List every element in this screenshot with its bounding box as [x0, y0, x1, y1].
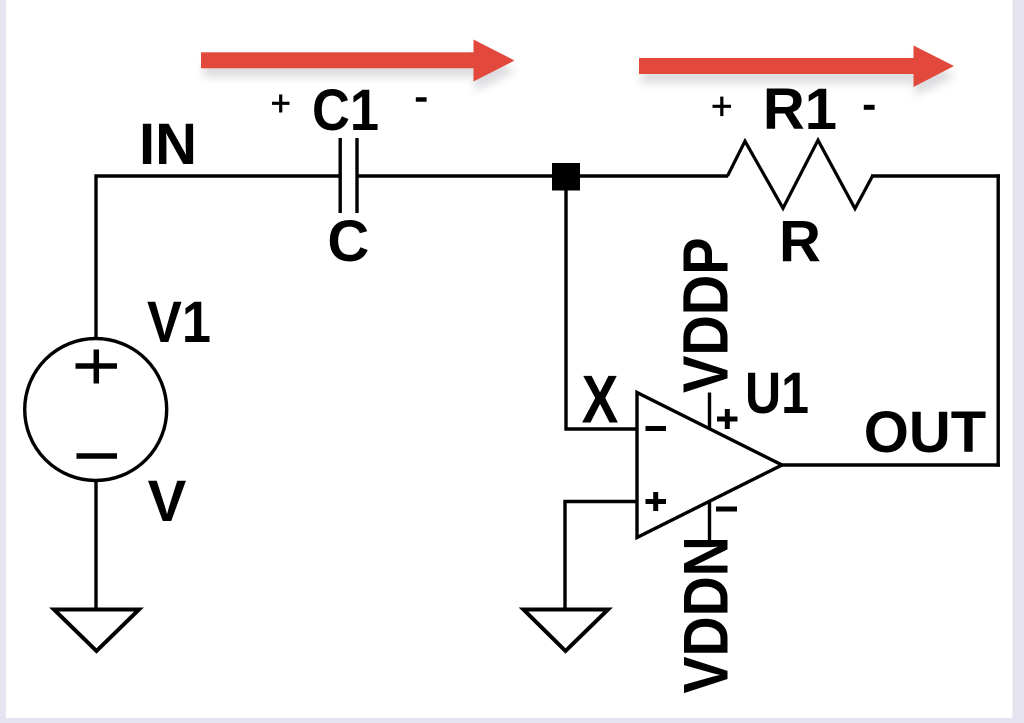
junction node X (solid square): [552, 163, 580, 191]
op-amp U1 VDDN pin stub: [708, 501, 711, 541]
wire junction X down to op-amp inverting input: [566, 190, 637, 429]
capacitor C1 minus polarity mark: [416, 97, 427, 102]
capacitor C1 plus polarity mark: [272, 95, 290, 113]
svg-text:OUT: OUT: [864, 400, 986, 465]
wire right rail vertical (OUT feedback): [997, 174, 1000, 466]
svg-text:X: X: [582, 362, 619, 438]
wire resistor R1 to right rail: [871, 174, 1000, 177]
wire IN: horizontal from corner to C1 left plate: [95, 174, 340, 177]
svg-text:C: C: [327, 209, 369, 274]
svg-text:IN: IN: [139, 112, 197, 177]
wire IN: left vertical from corner to V1: [94, 175, 97, 339]
op-amp U1 VDDN pin minus mark: [716, 507, 737, 512]
ground symbol G1: [54, 610, 139, 652]
resistor R1 plus polarity mark: [713, 97, 732, 117]
svg-text:V: V: [148, 469, 187, 534]
current arrow A2 (over R1): [639, 46, 956, 97]
voltage source V1 circle: [25, 339, 167, 481]
wire op-amp non-inverting input to ground G2: [565, 502, 637, 610]
op-amp U1 inverting input minus mark: [646, 426, 667, 431]
op-amp U1 triangle: [637, 393, 782, 538]
op-amp U1 VDDP pin plus mark: [717, 409, 738, 429]
current arrow A1 (over C1): [201, 40, 516, 92]
op-amp U1 VDDP pin stub: [708, 393, 711, 430]
wire op-amp output (OUT): [780, 463, 1000, 466]
svg-text:VDDP: VDDP: [670, 237, 741, 393]
resistor R1 minus polarity mark: [864, 105, 875, 110]
voltage source V1 plus mark: [76, 350, 118, 384]
resistor R1 zigzag body: [728, 140, 873, 208]
capacitor C1 left plate: [339, 138, 342, 213]
op-amp U1 non-inverting input plus mark: [646, 492, 667, 511]
capacitor C1 right plate: [355, 138, 358, 213]
wire node X: C1 right plate to resistor R1: [359, 174, 729, 177]
svg-text:C1: C1: [312, 78, 379, 143]
svg-text:VDDN: VDDN: [670, 536, 741, 693]
wire V1 to ground: [94, 481, 97, 609]
svg-text:R: R: [779, 210, 821, 275]
svg-text:U1: U1: [745, 361, 809, 426]
voltage source V1 minus mark: [77, 453, 118, 459]
svg-text:R1: R1: [763, 77, 837, 142]
ground symbol G2: [524, 610, 609, 652]
svg-text:V1: V1: [147, 290, 211, 355]
